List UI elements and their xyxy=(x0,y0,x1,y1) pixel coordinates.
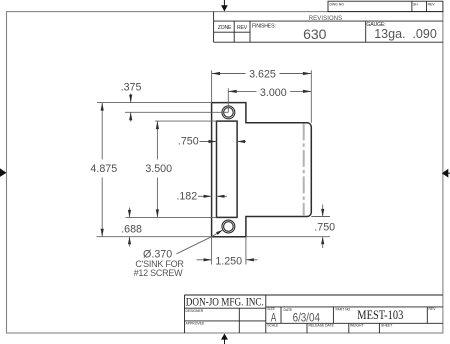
.750 cutout width arrows xyxy=(200,141,217,143)
bottom screw hole xyxy=(222,220,235,233)
ext: plate bottom to right xyxy=(246,236,330,238)
3.500 top/bottom xyxy=(156,121,159,129)
4.875 dim line xyxy=(101,103,103,160)
3.625 dim line xyxy=(212,73,246,75)
.688 arrow stems xyxy=(129,208,131,218)
svg-text:FINISHES:: FINISHES: xyxy=(252,24,276,30)
ext: lip bottom to right xyxy=(311,216,330,218)
svg-text:MEST-103: MEST-103 xyxy=(357,308,403,322)
svg-text:.750: .750 xyxy=(314,221,335,233)
svg-text:REV: REV xyxy=(237,25,248,31)
svg-text:DON-JO MFG. INC.: DON-JO MFG. INC. xyxy=(186,297,264,309)
ext: plate left down for 1.250 xyxy=(211,237,213,265)
svg-text:13ga. .090: 13ga. .090 xyxy=(374,27,437,41)
svg-text:REV: REV xyxy=(429,307,437,311)
ext: cutout top to left xyxy=(155,120,217,122)
part outline xyxy=(212,103,312,237)
ext: plate right down for 1.250 xyxy=(245,237,247,265)
svg-text:SHEET: SHEET xyxy=(381,323,392,327)
top screw hole xyxy=(222,106,235,119)
cutout xyxy=(217,121,238,217)
svg-text:.750: .750 xyxy=(178,135,199,147)
svg-text:PART NO.: PART NO. xyxy=(336,308,352,312)
top-right dwg-no strip xyxy=(328,1,443,11)
dimension/extension lines xyxy=(97,70,331,264)
3.500 dim line xyxy=(156,121,158,159)
svg-text:3.625: 3.625 xyxy=(249,69,276,81)
ext: plate bottom to left xyxy=(97,236,212,238)
svg-text:.182: .182 xyxy=(176,190,197,202)
top center marker xyxy=(221,5,228,11)
1.250 arrows xyxy=(204,258,212,261)
bend centerline (dash-dot) xyxy=(303,123,305,215)
svg-text:DWG NO: DWG NO xyxy=(330,2,345,6)
svg-text:REV: REV xyxy=(428,2,436,6)
3.000 left/right xyxy=(228,90,236,93)
svg-text:RELEASE DATE: RELEASE DATE xyxy=(309,323,335,327)
svg-text:.688: .688 xyxy=(121,224,142,236)
svg-text:3.000: 3.000 xyxy=(260,87,287,99)
svg-text:#12 SCREW: #12 SCREW xyxy=(134,268,184,278)
bottom center marker xyxy=(221,334,228,340)
svg-text:3.500: 3.500 xyxy=(145,163,172,175)
svg-text:SCALE: SCALE xyxy=(267,323,279,327)
left center marker xyxy=(0,168,7,177)
title block xyxy=(185,295,443,333)
ext: plate top edge to left xyxy=(97,102,212,104)
.182 arrows xyxy=(198,195,212,197)
svg-text:APPROVED: APPROVED xyxy=(186,322,205,326)
3.625 left/right xyxy=(212,72,220,75)
leader arrowhead at hole xyxy=(216,230,223,235)
.375 down/up xyxy=(129,95,132,103)
.750 right arrow stems xyxy=(322,205,324,217)
.750 right arrows xyxy=(321,209,324,217)
revisions table xyxy=(214,12,443,43)
svg-text:REVISIONS: REVISIONS xyxy=(309,16,343,22)
ext: top hole centerline to left xyxy=(125,111,228,113)
3.000 ext: hole center vertical xyxy=(227,88,229,112)
svg-text:SH: SH xyxy=(413,2,418,6)
svg-text:630: 630 xyxy=(303,26,327,42)
arrowheads xyxy=(101,72,325,262)
right center marker xyxy=(442,169,448,178)
svg-text:1.250: 1.250 xyxy=(215,255,242,267)
.688 arrows xyxy=(128,210,131,218)
svg-text:WEIGHT: WEIGHT xyxy=(350,323,364,327)
.750 cutout arrows xyxy=(209,140,217,143)
4.875 top/bottom xyxy=(101,103,104,111)
ext: plate top to 3.625 dim xyxy=(211,70,213,102)
svg-text:DATE: DATE xyxy=(284,308,294,312)
1.250 arrow tails xyxy=(197,259,212,261)
ext: cutout bottom to left xyxy=(126,216,217,218)
.375 arrows stems xyxy=(130,94,132,103)
leader line for countersink xyxy=(177,230,223,254)
svg-text:4.875: 4.875 xyxy=(90,163,117,175)
svg-text:ZONE: ZONE xyxy=(218,25,232,31)
3.000 dim line xyxy=(228,90,256,92)
ext: lip right to 3.625 dim xyxy=(310,70,312,123)
svg-text:DESIGNER: DESIGNER xyxy=(186,309,204,313)
.182 arrows xyxy=(204,195,212,198)
svg-text:.375: .375 xyxy=(121,82,142,94)
